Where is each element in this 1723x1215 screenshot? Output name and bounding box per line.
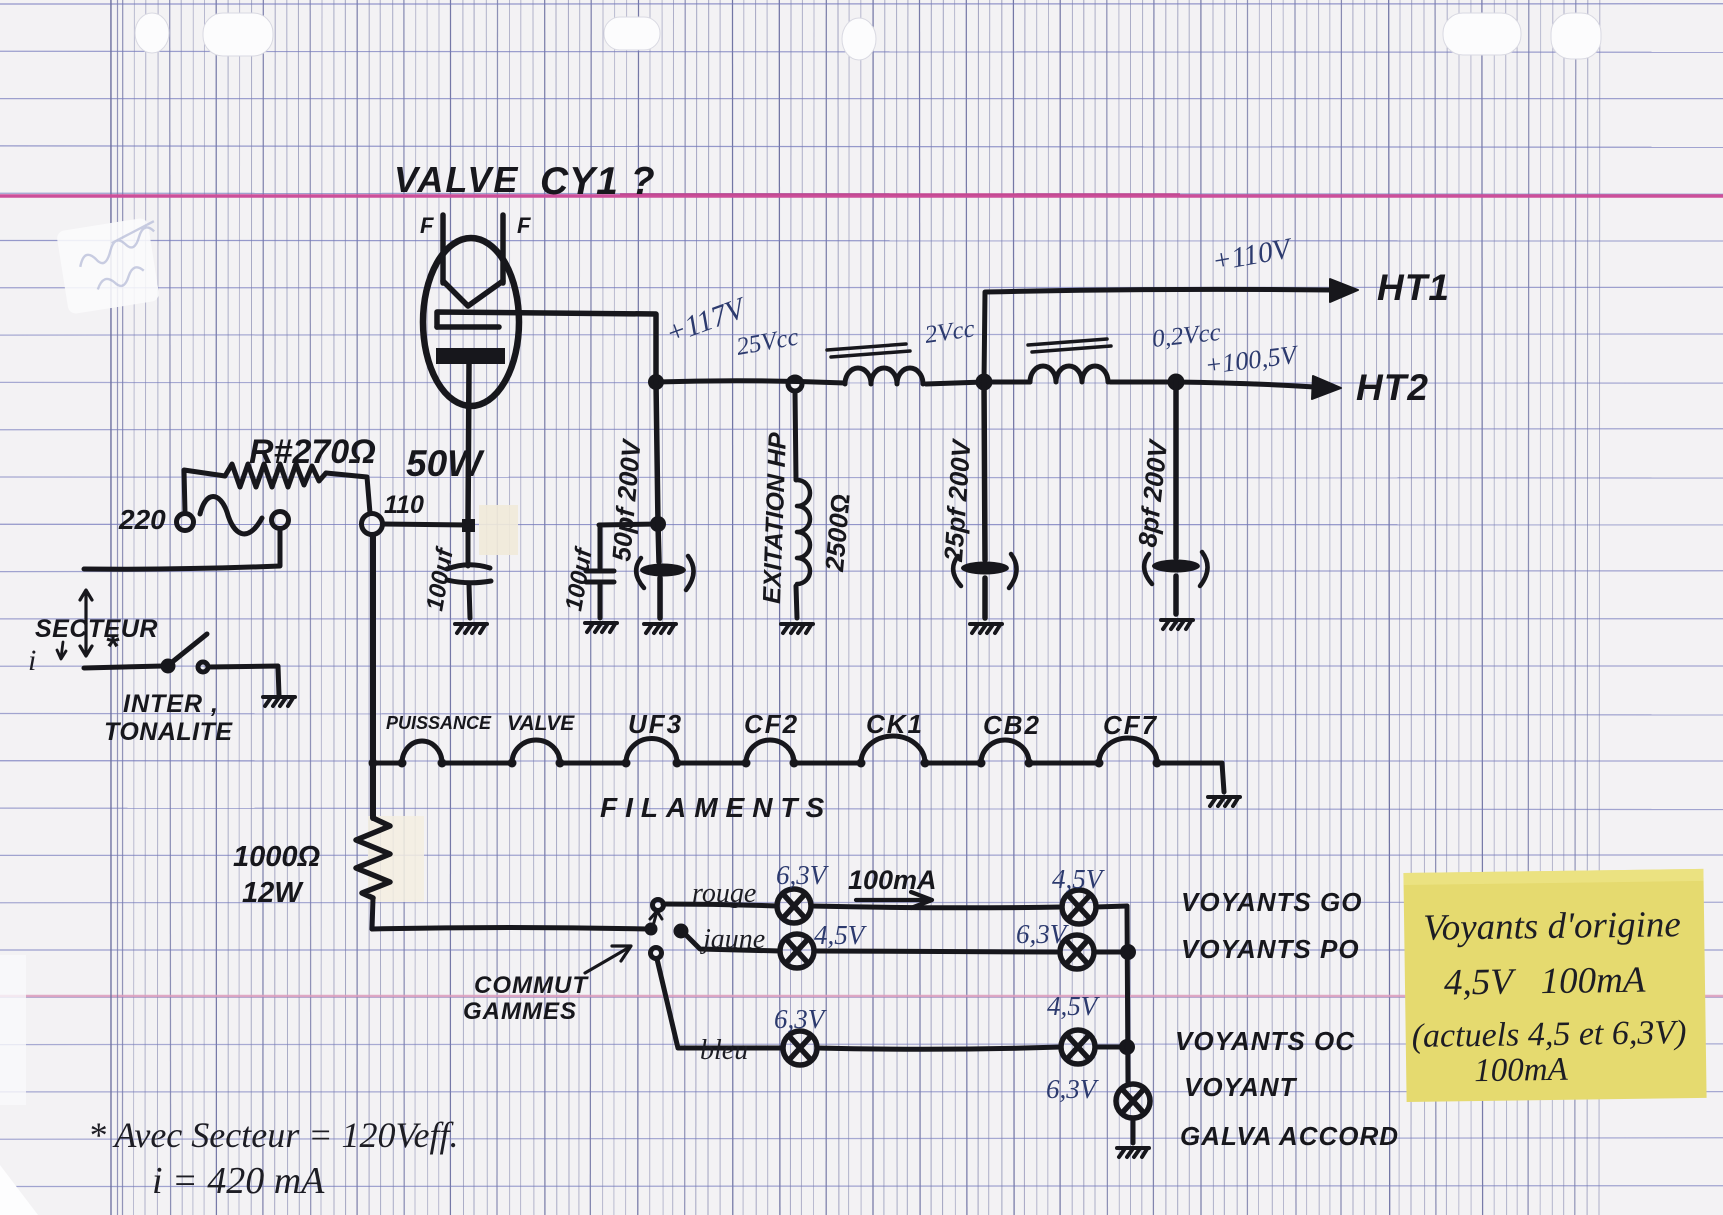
- svg-text:CK1: CK1: [866, 709, 924, 739]
- svg-text:GAMMES: GAMMES: [463, 998, 577, 1025]
- svg-text:4,5V: 4,5V: [1047, 991, 1101, 1021]
- svg-text:6,3V: 6,3V: [774, 1004, 828, 1034]
- svg-text:4,5V 100mA: 4,5V 100mA: [1444, 960, 1646, 1004]
- svg-text:SECTEUR: SECTEUR: [35, 615, 158, 643]
- svg-text:F: F: [517, 213, 531, 238]
- svg-text:TONALITE: TONALITE: [104, 718, 233, 746]
- svg-text:CF2: CF2: [744, 709, 799, 739]
- svg-text:VOYANTS GO: VOYANTS GO: [1181, 887, 1362, 917]
- svg-text:HT1: HT1: [1377, 267, 1450, 308]
- svg-text:R#270Ω: R#270Ω: [249, 433, 376, 471]
- svg-text:EXITATION HP: EXITATION HP: [758, 432, 792, 604]
- svg-text:4,5V: 4,5V: [1052, 864, 1106, 894]
- svg-text:VALVE: VALVE: [507, 712, 575, 735]
- svg-text:CB2: CB2: [983, 710, 1041, 740]
- svg-text:VOYANTS OC: VOYANTS OC: [1175, 1026, 1355, 1056]
- svg-text:jaune: jaune: [700, 924, 765, 955]
- svg-text:1000Ω: 1000Ω: [233, 841, 321, 873]
- svg-text:COMMUT: COMMUT: [474, 972, 589, 999]
- svg-text:rouge: rouge: [692, 878, 756, 909]
- svg-text:6,3V: 6,3V: [1016, 919, 1070, 949]
- svg-text:50W: 50W: [406, 443, 485, 484]
- svg-text:CY1 ?: CY1 ?: [540, 160, 656, 203]
- svg-text:F: F: [420, 213, 434, 238]
- svg-text:HT2: HT2: [1356, 367, 1429, 408]
- svg-text:*: *: [105, 628, 120, 666]
- svg-text:6,3V: 6,3V: [1046, 1074, 1100, 1104]
- svg-text:CF7: CF7: [1103, 710, 1158, 740]
- svg-text:4,5V: 4,5V: [814, 920, 868, 950]
- svg-text:PUISSANCE: PUISSANCE: [386, 713, 492, 733]
- svg-text:VALVE: VALVE: [394, 159, 519, 200]
- svg-text:bleu: bleu: [700, 1035, 748, 1066]
- svg-text:FILAMENTS: FILAMENTS: [600, 792, 832, 823]
- svg-text:INTER ,: INTER ,: [123, 690, 219, 718]
- svg-text:110: 110: [384, 491, 424, 519]
- svg-text:GALVA ACCORD: GALVA ACCORD: [1180, 1121, 1399, 1151]
- svg-text:* Avec Secteur = 120Veff.: * Avec Secteur = 120Veff.: [88, 1115, 459, 1155]
- svg-text:100mA: 100mA: [1474, 1052, 1569, 1089]
- svg-text:VOYANTS PO: VOYANTS PO: [1181, 934, 1360, 964]
- svg-text:VOYANT: VOYANT: [1184, 1072, 1298, 1102]
- svg-text:(actuels 4,5 et 6,3V): (actuels 4,5 et 6,3V): [1411, 1014, 1686, 1055]
- svg-text:Voyants d'origine: Voyants d'origine: [1423, 904, 1681, 949]
- svg-text:UF3: UF3: [628, 709, 683, 739]
- svg-text:100mA: 100mA: [848, 865, 937, 895]
- svg-text:12W: 12W: [242, 877, 304, 909]
- svg-text:i: i: [28, 644, 36, 677]
- svg-text:220: 220: [118, 504, 166, 535]
- svg-text:6,3V: 6,3V: [776, 860, 830, 890]
- svg-text:i = 420 mA: i = 420 mA: [152, 1160, 325, 1202]
